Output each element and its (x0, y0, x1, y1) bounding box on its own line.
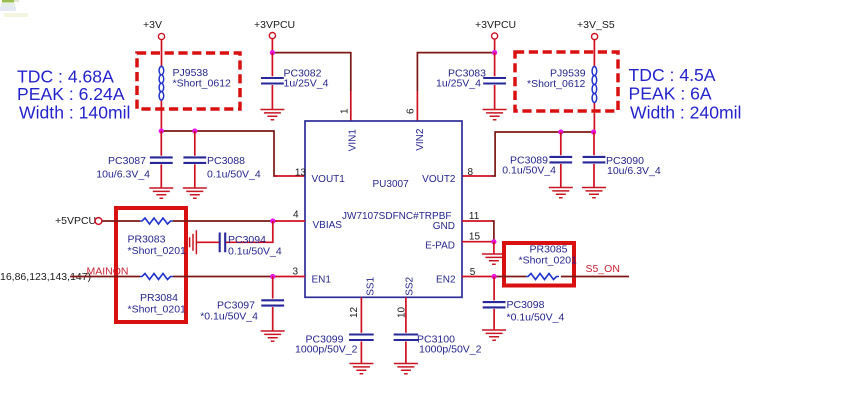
capacitor PC3094 (220, 233, 226, 253)
red box PR3083 PR3084 (116, 208, 186, 322)
svg-text:SS1: SS1 (366, 276, 377, 295)
capacitor PC3100 (405, 297, 407, 333)
wire E-PAD to ground (493, 242, 495, 254)
capacitor PC3089 (560, 132, 562, 155)
wire +3V_S5 to VOUT2 node (593, 40, 595, 132)
inductor PJ9538 (159, 66, 164, 100)
wire PC3094 tap (226, 221, 273, 242)
wire +3VPCU to pin6 riser (417, 53, 494, 91)
svg-text:0.1u/50V_4: 0.1u/50V_4 (228, 246, 282, 258)
pin 3 stub (275, 276, 305, 278)
pin 4 stub (275, 220, 305, 222)
wire GND pin11 to E-PAD (492, 221, 494, 242)
capacitor PC3087 (160, 131, 162, 156)
dashed box PJ9539 (515, 52, 618, 111)
node EN2 junction (492, 274, 497, 279)
svg-text:+3V: +3V (143, 19, 162, 31)
node VOUT2 junction A (558, 129, 563, 134)
svg-text:8: 8 (468, 167, 474, 178)
svg-text:12: 12 (349, 306, 360, 318)
svg-text:VIN2: VIN2 (415, 128, 426, 151)
power +3VPCU left symbol (269, 33, 275, 39)
svg-text:Width : 240mil: Width : 240mil (630, 103, 741, 123)
svg-text:PC3098: PC3098 (507, 299, 545, 311)
capacitor PC3082 (271, 53, 273, 77)
wire EN2 net (492, 276, 629, 278)
capacitor PC3090 (593, 132, 595, 155)
svg-text:PEAK : 6A: PEAK : 6A (629, 84, 712, 104)
svg-text:*Short_0612: *Short_0612 (173, 78, 232, 90)
wire VBIAS net (102, 220, 277, 222)
pin 13 stub (275, 175, 305, 177)
resistor PR3084 (140, 274, 173, 280)
wire EN1 net (70, 276, 277, 278)
ground PC3082 (260, 110, 284, 120)
svg-text:1000p/50V_2: 1000p/50V_2 (295, 344, 358, 356)
dashed box PJ9538 (137, 53, 240, 109)
capacitor PC3099 (360, 297, 362, 333)
svg-text:EN1: EN1 (312, 275, 332, 286)
svg-text:VBIAS: VBIAS (313, 220, 343, 231)
ground PC3090 (582, 188, 606, 198)
svg-text:0.1u/50V_4: 0.1u/50V_4 (502, 165, 556, 177)
capacitor PC3088 (194, 131, 196, 156)
wire VOUT1 net (161, 131, 277, 176)
svg-text:SS2: SS2 (405, 276, 416, 295)
ground PC3083 (483, 110, 507, 120)
wire +3VPCU drop (271, 39, 273, 53)
ground PC3098 (482, 330, 506, 340)
svg-text:6: 6 (406, 108, 417, 114)
ground PC3094 rotated (186, 230, 196, 254)
svg-text:PC3094: PC3094 (228, 234, 266, 246)
pin 15 stub (462, 241, 494, 243)
svg-text:4: 4 (293, 210, 299, 221)
svg-text:+5VPCU: +5VPCU (55, 215, 96, 227)
ground PC3097 (261, 331, 285, 341)
svg-text:VOUT2: VOUT2 (422, 174, 456, 185)
node VBIAS junction (270, 218, 275, 223)
node +3VPCU right junction (492, 50, 497, 55)
node +3VPCU left junction (270, 50, 275, 55)
ground PC3099 (349, 364, 373, 374)
svg-text:0.1u/50V_4: 0.1u/50V_4 (207, 169, 261, 181)
power +3V_S5 symbol (592, 34, 598, 40)
svg-text:1u/25V_4: 1u/25V_4 (284, 78, 329, 90)
svg-text:1u/25V_4: 1u/25V_4 (436, 78, 481, 90)
svg-text:PEAK : 6.24A: PEAK : 6.24A (17, 84, 125, 104)
ground PC3088 (183, 188, 207, 198)
svg-text:*0.1u/50V_4: *0.1u/50V_4 (507, 312, 565, 324)
svg-text:1: 1 (340, 108, 351, 114)
wire +3V to VOUT1 node (160, 40, 162, 131)
node VOUT1 junction A (159, 128, 164, 133)
pin 5 stub (462, 276, 492, 278)
svg-text:PC3088: PC3088 (207, 155, 245, 167)
ground E-PAD (482, 254, 506, 264)
svg-text:*Short_0201: *Short_0201 (128, 304, 187, 316)
node VOUT2 junction B (591, 129, 596, 134)
node VOUT1 junction B (192, 128, 197, 133)
svg-text:*0.1u/50V_4: *0.1u/50V_4 (200, 311, 258, 323)
pin 6 stub (416, 91, 418, 121)
svg-text:PR3084: PR3084 (140, 292, 178, 304)
wire VOUT2 net (492, 132, 594, 176)
svg-text:PU3007: PU3007 (373, 179, 410, 190)
svg-text:1000p/50V_2: 1000p/50V_2 (419, 344, 482, 356)
wire +3VPCU right drop (494, 39, 496, 52)
svg-text:PC3087: PC3087 (108, 155, 146, 167)
resistor PR3083 (140, 218, 173, 224)
svg-text:+3VPCU: +3VPCU (475, 19, 516, 31)
svg-text:TDC : 4.5A: TDC : 4.5A (629, 65, 716, 85)
pin 8 stub (462, 175, 492, 177)
svg-text:VOUT1: VOUT1 (312, 174, 346, 185)
power +5VPCU connector (95, 218, 102, 225)
note: TDC left text (17, 67, 130, 123)
node E-PAD junction (491, 239, 496, 244)
capacitor PC3083 (494, 53, 496, 77)
red box PR3085 (504, 243, 574, 286)
pin 11 stub (462, 220, 492, 222)
svg-text:Width : 140mil: Width : 140mil (19, 103, 130, 123)
ground PC3087 (149, 188, 173, 198)
resistor PR3085 (526, 274, 559, 280)
svg-text:GND: GND (433, 221, 455, 232)
svg-text:13: 13 (295, 168, 307, 179)
note: TDC right text (629, 65, 742, 123)
ground PC3089 (549, 188, 573, 198)
inductor PJ9539 (592, 67, 597, 103)
wire +3VPCU to pin1 riser (272, 53, 350, 91)
op-amp regulator U PU3007 body (305, 121, 462, 297)
svg-text:VIN1: VIN1 (348, 129, 359, 152)
node EN1 junction (270, 274, 275, 279)
capacitor PC3097 (272, 277, 274, 299)
capacitor PC3098 (493, 277, 495, 301)
svg-text:E-PAD: E-PAD (425, 241, 455, 252)
svg-text:10u/6.3V_4: 10u/6.3V_4 (96, 169, 150, 181)
svg-text:*Short_0201: *Short_0201 (519, 255, 578, 267)
power +3VPCU right symbol (492, 33, 498, 39)
power +3V symbol (158, 33, 164, 39)
svg-text:10u/6.3V_4: 10u/6.3V_4 (607, 165, 661, 177)
svg-text:PR3083: PR3083 (128, 234, 166, 246)
pin 1 stub (350, 91, 352, 121)
svg-text:+3VPCU: +3VPCU (254, 19, 295, 31)
svg-text:*Short_0201: *Short_0201 (128, 245, 187, 257)
ground PC3100 (394, 364, 418, 374)
svg-text:+3V_S5: +3V_S5 (577, 19, 615, 31)
svg-text:S5_ON: S5_ON (586, 263, 620, 275)
svg-text:*Short_0612: *Short_0612 (527, 78, 586, 90)
screenshot artifact top-left (0, 0, 28, 17)
svg-text:EN2: EN2 (436, 275, 456, 286)
